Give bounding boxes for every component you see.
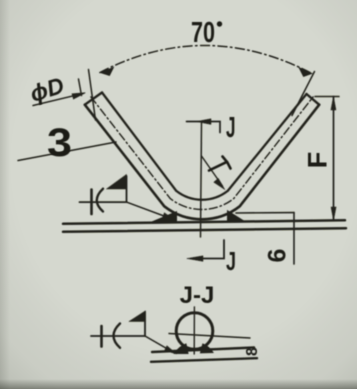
weld symbol main: arc symbol: [97, 189, 103, 212]
section weld fillet right: [201, 344, 214, 353]
bent rod: inner outline: [102, 93, 307, 200]
rod cross-section circle: [176, 313, 213, 350]
bent rod item 3: outer outline: [85, 105, 319, 220]
section plate bottom line: [151, 358, 257, 362]
rod centerline (dash-dot): [91, 97, 313, 210]
F dimension line: [333, 97, 335, 221]
section arrow top: [187, 122, 221, 133]
angular extension line left: [89, 70, 96, 121]
weld symbol section: flag pole: [144, 312, 146, 336]
radius r leader: [202, 156, 223, 186]
label r (handwritten strokes): [209, 162, 227, 171]
section cut centerline J-J (vertical): [201, 122, 202, 238]
weld toe extension line (6 dim): [236, 212, 294, 214]
weld symbol section: vertical tick: [100, 326, 103, 347]
weld symbol main: flag: [107, 175, 127, 190]
section plate top line: [152, 348, 254, 353]
phi-D leader line: [33, 95, 76, 105]
angular extension line right: [292, 72, 315, 116]
weld symbol main: reference line: [80, 201, 127, 203]
weld symbol main: vertical tick: [90, 190, 93, 215]
70-degree dimension arc (dashed): [100, 45, 312, 73]
section weld fillet left: [175, 344, 189, 354]
arc arrowhead left: [100, 68, 114, 76]
phi-D extension tick: [79, 79, 82, 96]
circle vertical centerline: [193, 307, 195, 354]
weld symbol section: arc symbol: [114, 324, 121, 348]
seat plate top line: [63, 220, 345, 224]
rod end cap left: [85, 93, 102, 105]
section arrow bottom: [192, 240, 224, 259]
part leader 3: [18, 142, 116, 161]
weld fillet right (main): [228, 211, 246, 222]
6 dimension line vertical: [293, 213, 295, 264]
weld symbol section: reference line: [91, 335, 145, 337]
F extension line top: [315, 96, 339, 98]
weld symbol main: leader to weld: [127, 202, 169, 217]
phi-D arrowhead: [72, 93, 85, 99]
weld fillet left (main): [151, 212, 177, 223]
weld symbol section: leader: [145, 336, 171, 351]
weld symbol section: flag: [129, 311, 146, 322]
rod end cap right: [307, 94, 320, 105]
arc arrowhead right: [299, 68, 312, 77]
seat plate bottom line: [63, 228, 346, 232]
weld symbol main: flag pole: [126, 176, 128, 202]
circle horizontal centerline: [169, 334, 250, 339]
